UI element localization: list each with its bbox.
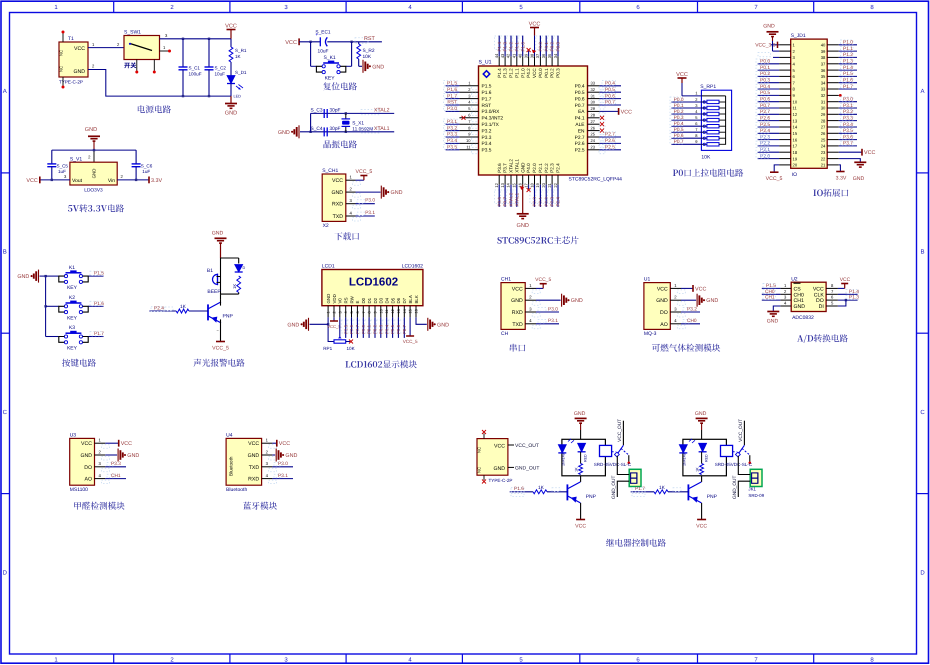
svg-text:RXD: RXD bbox=[248, 477, 259, 483]
power GND bbox=[230, 96, 232, 103]
connector S_CH1 download bbox=[322, 174, 346, 221]
svg-text:P0.3: P0.3 bbox=[556, 68, 561, 78]
wire GND_OUT JK2 bbox=[738, 481, 750, 497]
svg-text:9: 9 bbox=[373, 311, 377, 313]
svg-text:P2.3: P2.3 bbox=[550, 163, 555, 173]
svg-text:S_SW1: S_SW1 bbox=[124, 30, 141, 36]
svg-text:P3.4: P3.4 bbox=[447, 138, 457, 144]
net P1.7 relay JK2 bbox=[632, 487, 645, 492]
wire T1 VCC to switch bbox=[88, 47, 124, 49]
svg-text:28: 28 bbox=[821, 118, 826, 123]
svg-text:GND: GND bbox=[225, 111, 237, 117]
wire T1 GND to bottom rail bbox=[88, 70, 231, 97]
svg-text:K3: K3 bbox=[69, 325, 75, 331]
svg-text:C: C bbox=[3, 409, 8, 416]
wire reset rail bbox=[299, 41, 320, 43]
relay switch JK2 bbox=[733, 451, 737, 453]
wire VCC_OUT JK2 bbox=[743, 421, 745, 446]
svg-text:24: 24 bbox=[591, 138, 596, 143]
svg-text:A: A bbox=[3, 88, 7, 95]
rp1 net wires P0.0-P0.7 bbox=[671, 101, 701, 103]
svg-text:17: 17 bbox=[793, 144, 798, 149]
svg-text:TXD: TXD bbox=[333, 214, 344, 220]
svg-text:2: 2 bbox=[332, 311, 336, 313]
svg-text:AO: AO bbox=[85, 477, 93, 483]
net VCC_OUT typec bbox=[508, 444, 514, 446]
svg-text:RXD: RXD bbox=[512, 310, 523, 316]
power VCC rp1 bbox=[678, 77, 687, 79]
power VCC_5 alarm bbox=[216, 341, 225, 343]
title 甲醛检测模块 bbox=[74, 502, 124, 510]
svg-text:11.0592M: 11.0592M bbox=[352, 126, 373, 132]
svg-text:P0.0: P0.0 bbox=[361, 324, 366, 334]
svg-text:1K: 1K bbox=[538, 485, 545, 491]
net P1.6 relay JK1 bbox=[511, 487, 524, 492]
svg-text:42: 42 bbox=[506, 53, 511, 58]
svg-text:VCC_5: VCC_5 bbox=[327, 324, 341, 329]
lcd LCD1 body bbox=[322, 270, 423, 306]
svg-text:U1: U1 bbox=[644, 277, 651, 283]
svg-text:NC: NC bbox=[477, 467, 482, 473]
net P3.0 download bbox=[356, 203, 375, 205]
net CH1 u3 bbox=[105, 478, 126, 480]
svg-text:VCC_5: VCC_5 bbox=[212, 346, 229, 352]
svg-text:P2.0: P2.0 bbox=[532, 197, 537, 207]
svg-text:P2.5: P2.5 bbox=[343, 324, 348, 334]
svg-text:15: 15 bbox=[409, 309, 413, 313]
svg-text:P2.7: P2.7 bbox=[355, 324, 360, 334]
power GND serial bbox=[536, 299, 561, 301]
wire EA to VCC bbox=[600, 110, 619, 112]
svg-text:T1: T1 bbox=[68, 36, 74, 42]
svg-text:P0.6: P0.6 bbox=[605, 93, 615, 99]
svg-text:32: 32 bbox=[821, 93, 826, 98]
svg-text:LCD1602: LCD1602 bbox=[349, 277, 398, 289]
connector S_JD1 body bbox=[791, 39, 828, 168]
svg-text:40: 40 bbox=[821, 43, 826, 48]
svg-text:10: 10 bbox=[379, 309, 383, 313]
lcd pins bbox=[327, 306, 329, 318]
svg-text:P0.0: P0.0 bbox=[760, 59, 770, 65]
power VCC_5 jd1 bbox=[774, 165, 779, 172]
svg-text:P3.0: P3.0 bbox=[843, 96, 853, 102]
connector CH1 serial bbox=[501, 283, 525, 330]
svg-text:K1: K1 bbox=[69, 265, 75, 271]
svg-text:38: 38 bbox=[529, 53, 534, 58]
svg-text:P3.4: P3.4 bbox=[482, 141, 492, 147]
svg-text:NC: NC bbox=[477, 447, 482, 453]
svg-text:S_V1: S_V1 bbox=[70, 157, 82, 163]
relay JK1 body outline bbox=[562, 439, 606, 476]
title 声光报警电路 bbox=[194, 359, 245, 367]
svg-text:SRD-05VDC-SL-C: SRD-05VDC-SL-C bbox=[715, 462, 753, 467]
lcd net wires bbox=[341, 320, 345, 333]
svg-text:P3.1: P3.1 bbox=[548, 318, 558, 324]
svg-text:P0.5: P0.5 bbox=[674, 127, 684, 133]
svg-text:EN: EN bbox=[578, 128, 585, 134]
svg-text:GND: GND bbox=[287, 322, 299, 328]
net P1.5 adc bbox=[762, 287, 781, 289]
svg-text:P3.3: P3.3 bbox=[482, 135, 492, 141]
svg-text:TXD: TXD bbox=[249, 465, 260, 471]
svg-text:S_U1: S_U1 bbox=[479, 60, 492, 66]
svg-text:15: 15 bbox=[793, 131, 798, 136]
jd1 left nets P0 bbox=[758, 63, 780, 65]
svg-text:33: 33 bbox=[821, 87, 826, 92]
power GND gas bbox=[681, 299, 696, 301]
svg-text:P0.7: P0.7 bbox=[760, 103, 770, 109]
key S_K1 bbox=[310, 42, 312, 67]
svg-text:GND_OUT: GND_OUT bbox=[732, 475, 738, 499]
svg-text:P3.7: P3.7 bbox=[843, 141, 853, 147]
svg-text:21: 21 bbox=[821, 163, 826, 168]
svg-text:P2.2: P2.2 bbox=[544, 163, 549, 173]
svg-text:37: 37 bbox=[535, 53, 540, 58]
svg-text:43: 43 bbox=[500, 53, 505, 58]
wire lcd pin3 pot bbox=[339, 317, 341, 338]
svg-text:GND: GND bbox=[127, 453, 139, 459]
title LCD1602显示模块 bbox=[345, 361, 382, 368]
svg-text:P0.4: P0.4 bbox=[575, 84, 585, 90]
svg-text:31: 31 bbox=[821, 99, 826, 104]
svg-text:P1.2: P1.2 bbox=[843, 52, 853, 58]
svg-text:P2.4: P2.4 bbox=[760, 128, 770, 134]
svg-text:P2.6: P2.6 bbox=[760, 115, 770, 121]
svg-text:23: 23 bbox=[821, 150, 826, 155]
svg-text:10: 10 bbox=[793, 99, 798, 104]
svg-text:VCC_OUT: VCC_OUT bbox=[515, 443, 539, 449]
svg-text:16: 16 bbox=[415, 309, 419, 313]
jd1 right nets P3 bbox=[839, 101, 857, 103]
resistor base 1K JK1 bbox=[510, 491, 533, 493]
svg-text:P2.6: P2.6 bbox=[349, 324, 354, 334]
svg-text:P1.6: P1.6 bbox=[482, 90, 492, 96]
net CH0 gas bbox=[681, 323, 700, 325]
svg-text:P3.2: P3.2 bbox=[843, 109, 853, 115]
svg-text:P4.1: P4.1 bbox=[575, 116, 585, 122]
svg-text:P0.6: P0.6 bbox=[760, 96, 770, 102]
svg-text:AO: AO bbox=[660, 322, 668, 328]
svg-text:26: 26 bbox=[821, 131, 826, 136]
svg-text:40: 40 bbox=[518, 53, 523, 58]
power VCC_5 lcd pin15 bbox=[409, 317, 411, 336]
svg-text:25: 25 bbox=[821, 137, 826, 142]
svg-text:33: 33 bbox=[591, 81, 596, 86]
mcu left net wires bbox=[446, 85, 460, 87]
title STC89C52RC主芯片 bbox=[497, 237, 552, 244]
svg-text:IO: IO bbox=[792, 172, 797, 178]
svg-text:P0.0: P0.0 bbox=[674, 97, 684, 103]
net P3.0 u4 bbox=[272, 466, 293, 468]
transistor PNP JK2 bbox=[687, 484, 689, 500]
power VCC_5 serial bbox=[536, 287, 543, 289]
svg-text:13: 13 bbox=[500, 182, 505, 187]
svg-text:38: 38 bbox=[821, 55, 826, 60]
mcu right pins bbox=[588, 85, 600, 87]
svg-text:3.3V: 3.3V bbox=[151, 178, 162, 184]
svg-text:LED: LED bbox=[234, 95, 242, 99]
net P1.6 bbox=[89, 305, 104, 307]
svg-text:GND: GND bbox=[695, 411, 707, 417]
transistor Q1 PNP bbox=[207, 304, 209, 320]
power GND mcu bbox=[522, 185, 524, 214]
svg-text:VCC_5: VCC_5 bbox=[403, 339, 418, 344]
svg-text:VCC_5: VCC_5 bbox=[535, 277, 551, 283]
svg-text:GND: GND bbox=[372, 64, 384, 70]
svg-text:RST: RST bbox=[482, 103, 492, 109]
diode D alarm bbox=[235, 265, 243, 273]
rp1 resistors bbox=[701, 101, 707, 103]
resistor R alarm 1K bbox=[237, 276, 241, 293]
capacitor S_C5 1uF bbox=[51, 163, 53, 165]
power VCC_5 lcd pin2 bbox=[333, 317, 335, 321]
svg-text:GND: GND bbox=[391, 190, 403, 196]
svg-text:GND: GND bbox=[574, 411, 586, 417]
svg-text:RED: RED bbox=[705, 454, 709, 462]
wire key bus bbox=[45, 276, 47, 336]
net P3.3 u3 bbox=[105, 466, 126, 468]
switch S_SW1 bbox=[124, 36, 160, 60]
svg-text:CH0: CH0 bbox=[687, 318, 697, 324]
svg-text:39: 39 bbox=[821, 49, 826, 54]
svg-text:DI: DI bbox=[819, 304, 824, 310]
svg-text:XTAL2: XTAL2 bbox=[374, 108, 390, 114]
svg-text:VCC: VCC bbox=[26, 178, 37, 184]
svg-text:P2.4: P2.4 bbox=[556, 197, 561, 207]
svg-text:D: D bbox=[3, 569, 8, 576]
svg-text:VCC: VCC bbox=[248, 441, 259, 447]
net XTAL1 bbox=[361, 128, 379, 133]
svg-text:P2.5: P2.5 bbox=[575, 148, 585, 154]
adc pins bbox=[780, 287, 791, 289]
svg-text:GND: GND bbox=[493, 466, 505, 472]
title A/D转换电路 bbox=[797, 335, 813, 343]
svg-text:37: 37 bbox=[821, 61, 826, 66]
svg-text:D0: D0 bbox=[361, 297, 366, 303]
svg-text:U2: U2 bbox=[791, 276, 798, 282]
svg-text:12: 12 bbox=[793, 112, 798, 117]
connector TYPE-C-2P relay bbox=[477, 439, 508, 476]
svg-text:A: A bbox=[920, 88, 924, 95]
svg-text:P2.2: P2.2 bbox=[544, 197, 549, 207]
svg-text:32: 32 bbox=[591, 87, 596, 92]
svg-text:RP1: RP1 bbox=[323, 346, 332, 351]
power GND download bbox=[356, 191, 381, 193]
svg-text:CH0: CH0 bbox=[765, 289, 775, 295]
svg-text:P0.2: P0.2 bbox=[550, 42, 555, 52]
svg-text:36: 36 bbox=[541, 53, 546, 58]
svg-text:1: 1 bbox=[327, 311, 331, 313]
svg-text:1N4148: 1N4148 bbox=[562, 453, 566, 466]
svg-text:K2: K2 bbox=[69, 295, 75, 301]
svg-text:P1.4: P1.4 bbox=[843, 65, 853, 71]
wire top rail 3v3 bbox=[52, 149, 136, 151]
svg-text:14: 14 bbox=[506, 182, 511, 187]
net XTAL2 bbox=[361, 110, 379, 115]
mcu top net wires bbox=[495, 36, 499, 50]
svg-text:P1.7: P1.7 bbox=[635, 486, 645, 492]
svg-text:18: 18 bbox=[793, 150, 798, 155]
svg-text:1K: 1K bbox=[235, 54, 242, 59]
svg-text:VCC: VCC bbox=[279, 441, 290, 447]
title 按键电路 bbox=[62, 359, 96, 367]
module U1 MQ-3 bbox=[644, 283, 670, 330]
svg-text:RXD: RXD bbox=[332, 202, 343, 208]
svg-text:P0.6: P0.6 bbox=[575, 96, 585, 102]
relay coil JK1 bbox=[600, 445, 612, 456]
wire collector JK1 bbox=[580, 476, 582, 482]
svg-text:P2.0: P2.0 bbox=[760, 153, 770, 159]
svg-text:10K: 10K bbox=[363, 54, 372, 60]
svg-text:GND: GND bbox=[571, 298, 583, 304]
svg-text:P1.0: P1.0 bbox=[520, 68, 525, 78]
svg-text:XTAL1: XTAL1 bbox=[514, 159, 519, 173]
svg-text:39: 39 bbox=[523, 53, 528, 58]
svg-text:P0.2: P0.2 bbox=[674, 109, 684, 115]
svg-text:P3.0: P3.0 bbox=[278, 461, 288, 467]
capacitor S_EC1 10uF bbox=[319, 37, 321, 46]
svg-text:BLK: BLK bbox=[414, 295, 419, 303]
svg-text:GND: GND bbox=[92, 169, 97, 179]
svg-text:B1: B1 bbox=[207, 268, 213, 274]
svg-text:P0.2: P0.2 bbox=[760, 71, 770, 77]
svg-text:GND: GND bbox=[285, 453, 297, 459]
svg-text:S_R2: S_R2 bbox=[363, 48, 375, 54]
relay JK2 body outline bbox=[683, 439, 727, 476]
svg-text:P0.3: P0.3 bbox=[556, 42, 561, 52]
svg-text:Bluetooth: Bluetooth bbox=[226, 487, 247, 493]
svg-text:P3.0: P3.0 bbox=[447, 106, 457, 112]
wire lcd pin16 gnd bbox=[416, 317, 427, 324]
svg-text:P1.1: P1.1 bbox=[514, 42, 519, 52]
svg-text:NC: NC bbox=[59, 66, 64, 72]
svg-text:P2.4: P2.4 bbox=[556, 163, 561, 173]
svg-text:GND_OUT: GND_OUT bbox=[611, 475, 617, 499]
svg-text:KEY: KEY bbox=[67, 346, 78, 352]
svg-text:GND: GND bbox=[212, 231, 224, 237]
svg-text:P1.2: P1.2 bbox=[509, 42, 514, 52]
svg-text:XTAL1: XTAL1 bbox=[514, 192, 519, 206]
svg-text:GND_OUT: GND_OUT bbox=[515, 465, 539, 471]
svg-text:1N4148: 1N4148 bbox=[683, 453, 687, 466]
svg-text:P0.0: P0.0 bbox=[538, 68, 543, 78]
svg-text:30: 30 bbox=[591, 100, 596, 105]
svg-text:P2.5: P2.5 bbox=[605, 145, 615, 151]
svg-text:P0.3: P0.3 bbox=[674, 115, 684, 121]
svg-text:SRD-05VDC-SL-C: SRD-05VDC-SL-C bbox=[594, 462, 632, 467]
svg-text:S_C5: S_C5 bbox=[57, 164, 69, 169]
svg-text:BLA: BLA bbox=[408, 295, 413, 303]
svg-text:X2: X2 bbox=[323, 223, 329, 229]
transistor PNP JK1 bbox=[566, 484, 568, 500]
capacitor S_C2 10uF bbox=[208, 39, 210, 67]
svg-text:P3.0/RX: P3.0/RX bbox=[482, 109, 501, 115]
svg-text:P0.7: P0.7 bbox=[674, 139, 684, 145]
svg-text:P0.5: P0.5 bbox=[575, 90, 585, 96]
svg-text:10K: 10K bbox=[347, 346, 356, 351]
potentiometer RP1 10K bbox=[334, 340, 346, 343]
svg-text:15: 15 bbox=[512, 182, 517, 187]
svg-text:VCC: VCC bbox=[840, 277, 851, 283]
jd1 pin stubs and numbers bbox=[779, 44, 791, 46]
svg-text:36: 36 bbox=[821, 68, 826, 73]
svg-text:P1.1: P1.1 bbox=[514, 68, 519, 78]
svg-text:D6: D6 bbox=[396, 297, 401, 303]
adc U2 ADC0832 body bbox=[791, 282, 826, 311]
svg-text:P3.1: P3.1 bbox=[447, 119, 457, 125]
resistor network S_RP1 box bbox=[701, 90, 731, 150]
mcu right net wires bbox=[600, 85, 621, 87]
svg-text:P0.7: P0.7 bbox=[605, 100, 615, 106]
svg-text:S_EC1: S_EC1 bbox=[315, 30, 331, 36]
net P1.7 bbox=[89, 336, 104, 338]
svg-text:VCC: VCC bbox=[74, 46, 85, 52]
svg-text:P0.3: P0.3 bbox=[378, 324, 383, 334]
svg-text:21: 21 bbox=[547, 182, 552, 187]
title 复位电路 bbox=[323, 82, 357, 90]
svg-text:P1.0: P1.0 bbox=[520, 42, 525, 52]
wire switch to connector JK1 bbox=[617, 456, 629, 475]
svg-text:P0.4: P0.4 bbox=[384, 324, 389, 334]
wire crystal top bbox=[310, 113, 312, 131]
svg-text:S_C6: S_C6 bbox=[141, 164, 153, 169]
svg-text:S_C3: S_C3 bbox=[311, 108, 323, 114]
switch pin stubs bbox=[160, 50, 169, 52]
svg-text:P1.4: P1.4 bbox=[497, 42, 502, 52]
relay switch JK1 bbox=[612, 451, 616, 453]
svg-text:1K: 1K bbox=[180, 304, 187, 310]
key K2 bbox=[46, 305, 59, 307]
module U4 Bluetooth bbox=[226, 438, 262, 485]
net P3.1 u4 bbox=[272, 478, 293, 480]
svg-text:S_RP1: S_RP1 bbox=[700, 84, 716, 90]
svg-text:CH1: CH1 bbox=[765, 295, 775, 301]
power VCC gas bbox=[681, 287, 693, 289]
net P3.0 serial bbox=[536, 311, 559, 313]
connector T1 (TYPE-C-2P) bbox=[59, 42, 88, 77]
svg-text:XTAL2: XTAL2 bbox=[509, 192, 514, 206]
jd1 right nets P1 bbox=[839, 44, 857, 46]
power GND lcd right bbox=[427, 318, 429, 331]
svg-text:DO: DO bbox=[84, 465, 92, 471]
svg-text:CH1: CH1 bbox=[501, 277, 511, 283]
svg-text:GND: GND bbox=[331, 190, 343, 196]
svg-text:KEY: KEY bbox=[67, 285, 78, 291]
svg-text:S_R1: S_R1 bbox=[235, 48, 247, 53]
resistor base 1K JK2 bbox=[631, 491, 654, 493]
svg-text:S_CH1: S_CH1 bbox=[322, 168, 338, 174]
svg-text:1uF: 1uF bbox=[142, 169, 150, 174]
svg-text:P3.0: P3.0 bbox=[365, 198, 375, 204]
connector JK2 SRD bbox=[750, 469, 762, 486]
svg-text:STC89C52RC_LQFP44: STC89C52RC_LQFP44 bbox=[569, 177, 623, 183]
svg-text:10K: 10K bbox=[701, 155, 711, 161]
svg-text:PNP: PNP bbox=[707, 494, 718, 500]
svg-text:6: 6 bbox=[356, 311, 360, 313]
power GND lcd left bbox=[308, 318, 310, 331]
svg-text:P2.1: P2.1 bbox=[538, 163, 543, 173]
svg-text:RST: RST bbox=[364, 36, 375, 42]
svg-text:V0: V0 bbox=[338, 298, 343, 304]
svg-text:U4: U4 bbox=[226, 433, 233, 439]
svg-text:S_JD1: S_JD1 bbox=[791, 33, 806, 39]
svg-text:P1.4: P1.4 bbox=[497, 68, 502, 78]
svg-text:D3: D3 bbox=[379, 297, 384, 303]
power GND u4 bbox=[272, 454, 275, 456]
svg-text:DO: DO bbox=[660, 310, 668, 316]
svg-text:CH: CH bbox=[501, 331, 509, 337]
resistor base 1K alarm bbox=[149, 310, 176, 312]
